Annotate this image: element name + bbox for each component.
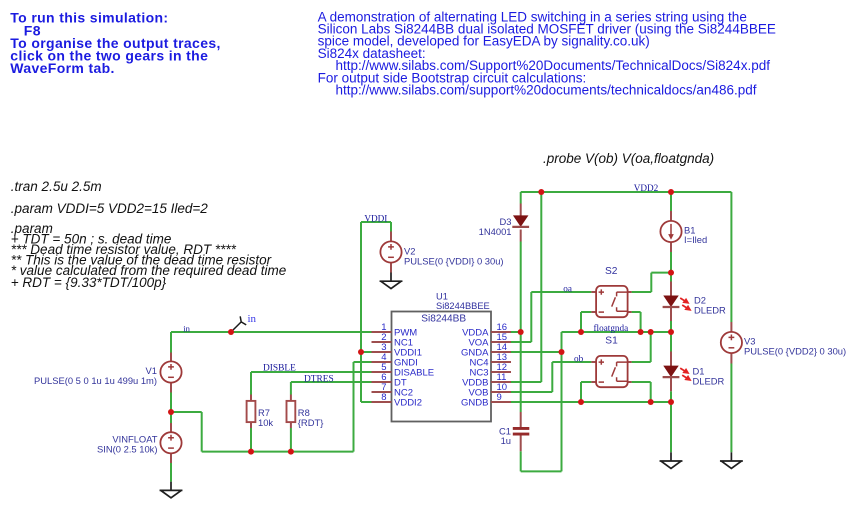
svg-text:.tran 2.5u 2.5m: .tran 2.5u 2.5m [11, 179, 102, 194]
svg-text:I=Iled: I=Iled [684, 234, 707, 245]
svg-text:U1: U1 [436, 291, 448, 301]
svg-text:DLEDR: DLEDR [693, 376, 725, 387]
svg-text:{RDT}: {RDT} [298, 417, 324, 428]
svg-text:in: in [183, 323, 190, 333]
svg-text:GNDB: GNDB [461, 398, 488, 409]
svg-text:V1: V1 [146, 365, 157, 376]
svg-text:http://www.silabs.com/support%: http://www.silabs.com/support%20document… [336, 83, 757, 98]
svg-text:DISBLE: DISBLE [263, 364, 296, 374]
svg-text:S2: S2 [605, 266, 618, 277]
svg-text:ob: ob [574, 353, 584, 363]
svg-text:S1: S1 [605, 336, 618, 347]
svg-text:WaveForm tab.: WaveForm tab. [10, 60, 115, 76]
svg-text:DTRES: DTRES [304, 375, 334, 385]
svg-text:oa: oa [563, 284, 572, 294]
svg-text:8: 8 [381, 392, 386, 403]
svg-text:in: in [248, 313, 257, 325]
svg-text:DLEDR: DLEDR [694, 304, 726, 315]
svg-text:1u: 1u [501, 435, 511, 446]
svg-text:PULSE(0 {VDD2} 0 30u): PULSE(0 {VDD2} 0 30u) [744, 346, 846, 357]
svg-text:PULSE(0 5 0 1u 1u 499u 1m): PULSE(0 5 0 1u 1u 499u 1m) [34, 375, 157, 386]
svg-text:1N4001: 1N4001 [479, 226, 512, 237]
svg-text:SIN(0 2.5 10k): SIN(0 2.5 10k) [97, 444, 157, 455]
svg-text:10k: 10k [258, 417, 273, 428]
svg-text:floatgnda: floatgnda [594, 323, 629, 333]
svg-text:.probe V(ob) V(oa,floatgnda): .probe V(ob) V(oa,floatgnda) [543, 151, 714, 166]
svg-text:9: 9 [497, 392, 502, 403]
svg-text:.param VDDI=5 VDD2=15 Iled=2: .param VDDI=5 VDD2=15 Iled=2 [11, 201, 208, 216]
svg-text:PULSE(0 {VDDI} 0 30u): PULSE(0 {VDDI} 0 30u) [404, 256, 504, 267]
svg-text:VDD2: VDD2 [634, 183, 659, 193]
svg-text:VDDI: VDDI [364, 213, 387, 223]
svg-text:+ RDT = {9.33*TDT/100p}: + RDT = {9.33*TDT/100p} [11, 275, 167, 290]
svg-text:Si8244BB: Si8244BB [421, 313, 466, 324]
svg-text:Si8244BBEE: Si8244BBEE [436, 301, 490, 311]
svg-text:VDDI2: VDDI2 [394, 398, 422, 409]
